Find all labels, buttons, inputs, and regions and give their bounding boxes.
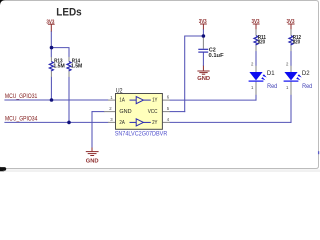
svg-text:Red: Red xyxy=(302,83,313,90)
svg-text:LEDs: LEDs xyxy=(56,7,81,19)
pin U2.1 stub xyxy=(108,99,116,101)
wire R11 bottom to D1 xyxy=(255,51,257,66)
wire pin5 to VCC rail horizontal xyxy=(170,111,186,113)
svg-text:1Y: 1Y xyxy=(152,98,158,104)
pin U2.3 stub xyxy=(108,121,116,123)
pin R12 top xyxy=(290,29,292,36)
wire D1 bottom vertical xyxy=(255,95,257,101)
wire R14 top xyxy=(68,48,70,58)
svg-text:2Y: 2Y xyxy=(152,120,158,126)
U2 body xyxy=(116,94,163,130)
wire pin6 to D1 horizontal xyxy=(170,99,257,101)
junction A (3V3 to R13/R14) xyxy=(50,46,54,50)
wire R14 bottom to GPIO34 row xyxy=(68,77,70,123)
right-edge blue tick xyxy=(318,151,320,154)
wire C2 bottom xyxy=(202,53,204,66)
resistor R14 xyxy=(67,62,71,72)
svg-text:GND: GND xyxy=(197,76,210,82)
wire D2 bottom vertical xyxy=(290,95,292,123)
junction GPIO31/R13 xyxy=(50,98,54,102)
bottom off-white strip below frame xyxy=(0,169,320,172)
wire R12 bottom to D2 xyxy=(290,51,292,66)
buffer triangle 1 xyxy=(130,97,151,104)
wire junction A to R14 column xyxy=(51,47,70,49)
svg-text:D2: D2 xyxy=(302,70,310,77)
resistor R12 xyxy=(289,36,293,46)
pin D1 bottom xyxy=(255,82,257,95)
svg-text:SN74LVC2G07DBVR: SN74LVC2G07DBVR xyxy=(115,131,168,138)
svg-text:3V3: 3V3 xyxy=(252,19,260,25)
junction C2/3V3 rail xyxy=(202,34,206,38)
svg-text:820: 820 xyxy=(293,40,300,46)
buffer triangle 2 xyxy=(130,119,151,126)
pin C2 top xyxy=(202,37,204,49)
svg-text:D1: D1 xyxy=(267,70,275,77)
window frame border xyxy=(0,1,319,169)
pin R11 top xyxy=(255,29,257,36)
svg-text:3V3: 3V3 xyxy=(46,19,54,25)
window corner top-left xyxy=(0,0,5,5)
wire U2 pin2 to gnd corner xyxy=(92,111,105,113)
svg-text:1.5M: 1.5M xyxy=(53,64,65,70)
pin R13 bottom xyxy=(50,71,52,77)
svg-text:820: 820 xyxy=(258,40,265,46)
resistor R11 xyxy=(254,36,258,46)
svg-text:U2: U2 xyxy=(116,88,123,94)
pin R11 bottom xyxy=(255,45,257,51)
pin D2 bottom xyxy=(290,82,292,95)
svg-text:3V3: 3V3 xyxy=(287,19,295,25)
window corner bottom-left xyxy=(0,166,4,171)
ground symbol (U2 GND pin) xyxy=(86,148,99,156)
pin U2.6 stub xyxy=(162,99,170,101)
wire VCC rail top horizontal to C2 junction xyxy=(185,35,204,37)
pin R14 top xyxy=(68,57,70,62)
pin U2.2 stub xyxy=(104,111,116,113)
svg-text:3V3: 3V3 xyxy=(199,19,207,25)
LED D2 xyxy=(284,72,297,80)
pin U2.4 stub xyxy=(162,121,170,123)
pin R12 bottom xyxy=(290,45,292,51)
wire pin4 to D2 horizontal xyxy=(170,121,292,123)
svg-text:MCU_GPIO31: MCU_GPIO31 xyxy=(5,93,38,100)
wire VCC rail vertical xyxy=(184,36,186,113)
power symbol 3V3 (C2 branch) xyxy=(200,24,207,29)
svg-text:1.5M: 1.5M xyxy=(71,64,83,70)
svg-text:2A: 2A xyxy=(119,120,125,126)
pin U2.5 stub xyxy=(162,111,170,113)
wire 3V3-A stem to junction A xyxy=(50,31,52,57)
wire MCU_GPIO34 row xyxy=(4,121,108,123)
svg-text:Red: Red xyxy=(267,83,278,90)
wire 3V3-C stem to C2 junction xyxy=(202,29,204,37)
svg-text:0.1uF: 0.1uF xyxy=(209,53,225,59)
svg-text:GND: GND xyxy=(86,158,99,164)
power symbol 3V3 (R12 branch) xyxy=(288,24,295,29)
svg-text:1A: 1A xyxy=(119,98,125,104)
power symbol 3V3 (R11 branch) xyxy=(253,24,260,29)
pin D2 top xyxy=(290,66,292,72)
svg-text:VCC: VCC xyxy=(148,109,158,115)
wire MCU_GPIO31 row xyxy=(4,99,108,101)
wire R13 bottom to GPIO31 row xyxy=(50,77,52,101)
svg-text:MCU_GPIO34: MCU_GPIO34 xyxy=(5,116,38,123)
wire gnd vertical down xyxy=(91,111,93,148)
pin R14 bottom xyxy=(68,71,70,77)
pin D1 top xyxy=(255,66,257,72)
junction GPIO34/R14 xyxy=(67,121,71,125)
pin R13 top xyxy=(50,57,52,62)
svg-text:GND: GND xyxy=(119,109,131,115)
